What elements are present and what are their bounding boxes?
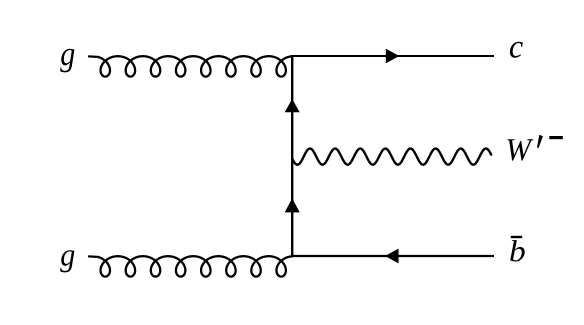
arrow up (upper, on internal line) — [285, 99, 300, 112]
superscript minus of W' — [549, 136, 563, 139]
gluon g1 (top incoming gluon) — [89, 56, 293, 76]
gluon g2 (bottom incoming gluon) — [89, 256, 293, 276]
boson W' line (wavy) — [292, 149, 491, 165]
arrow on bbar line (pointing left) — [385, 249, 398, 264]
label c — [510, 42, 523, 58]
wire c-quark line (top fermion, vertex to right) — [292, 55, 494, 57]
overbar of bbar — [511, 236, 522, 238]
label g (top gluon) — [60, 49, 74, 73]
wire internal quark propagator (vertical) — [291, 55, 293, 257]
arrow up (lower, on internal line) — [285, 198, 300, 212]
wire bbar-quark line (bottom fermion, vertex to right) — [292, 255, 494, 257]
label b of bbar — [510, 240, 525, 261]
prime mark of W' — [537, 135, 543, 148]
label W of W' — [507, 139, 533, 160]
label g (bottom gluon) — [60, 250, 74, 272]
arrow on c line (pointing right) — [386, 49, 399, 64]
